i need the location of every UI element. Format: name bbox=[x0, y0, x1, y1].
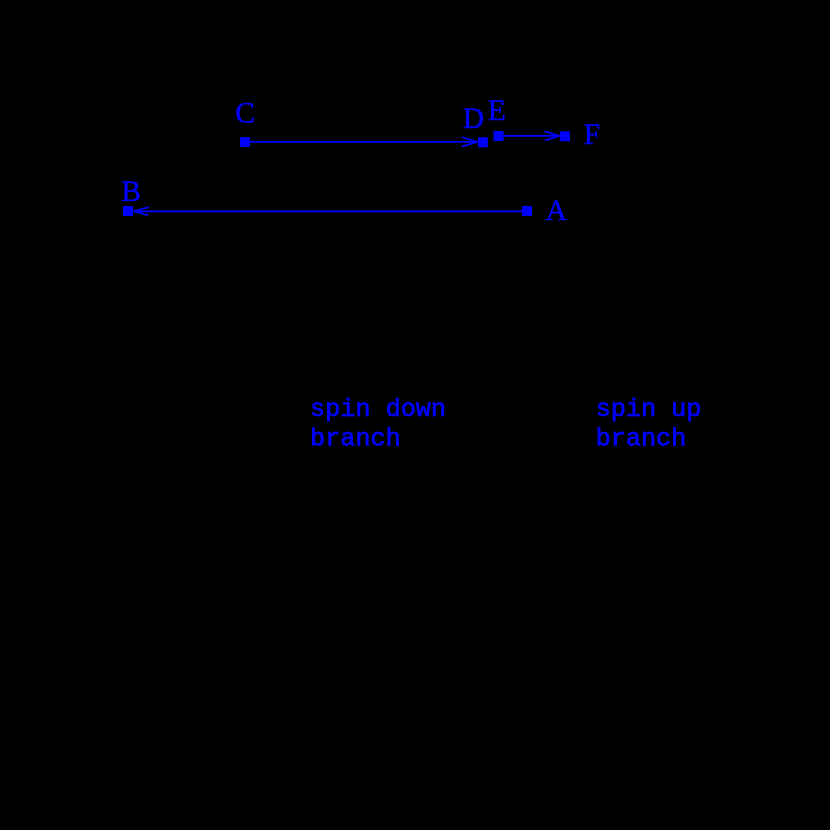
node D (square marker) bbox=[478, 137, 488, 147]
svg-text:A: A bbox=[546, 195, 567, 227]
svg-text:spin down: spin down bbox=[310, 395, 446, 424]
node A (square marker) bbox=[522, 206, 532, 216]
node E (square marker) bbox=[494, 131, 504, 141]
arrowhead at F bbox=[545, 131, 560, 136]
wire E to F bbox=[504, 135, 560, 137]
wire A to B bbox=[134, 210, 523, 212]
svg-text:C: C bbox=[235, 98, 255, 130]
svg-text:E: E bbox=[488, 95, 506, 127]
svg-text:branch: branch bbox=[310, 425, 401, 454]
wire C to D bbox=[250, 141, 478, 143]
node F (square marker) bbox=[560, 131, 570, 141]
svg-text:D: D bbox=[463, 103, 484, 135]
svg-text:B: B bbox=[121, 176, 141, 208]
node B (square marker) bbox=[123, 206, 133, 216]
arrowhead at B bbox=[134, 207, 149, 211]
svg-text:branch: branch bbox=[596, 425, 687, 454]
node C (square marker) bbox=[240, 137, 250, 147]
arrowhead at D bbox=[462, 137, 478, 142]
svg-text:spin up: spin up bbox=[596, 395, 702, 424]
svg-text:F: F bbox=[584, 119, 600, 151]
